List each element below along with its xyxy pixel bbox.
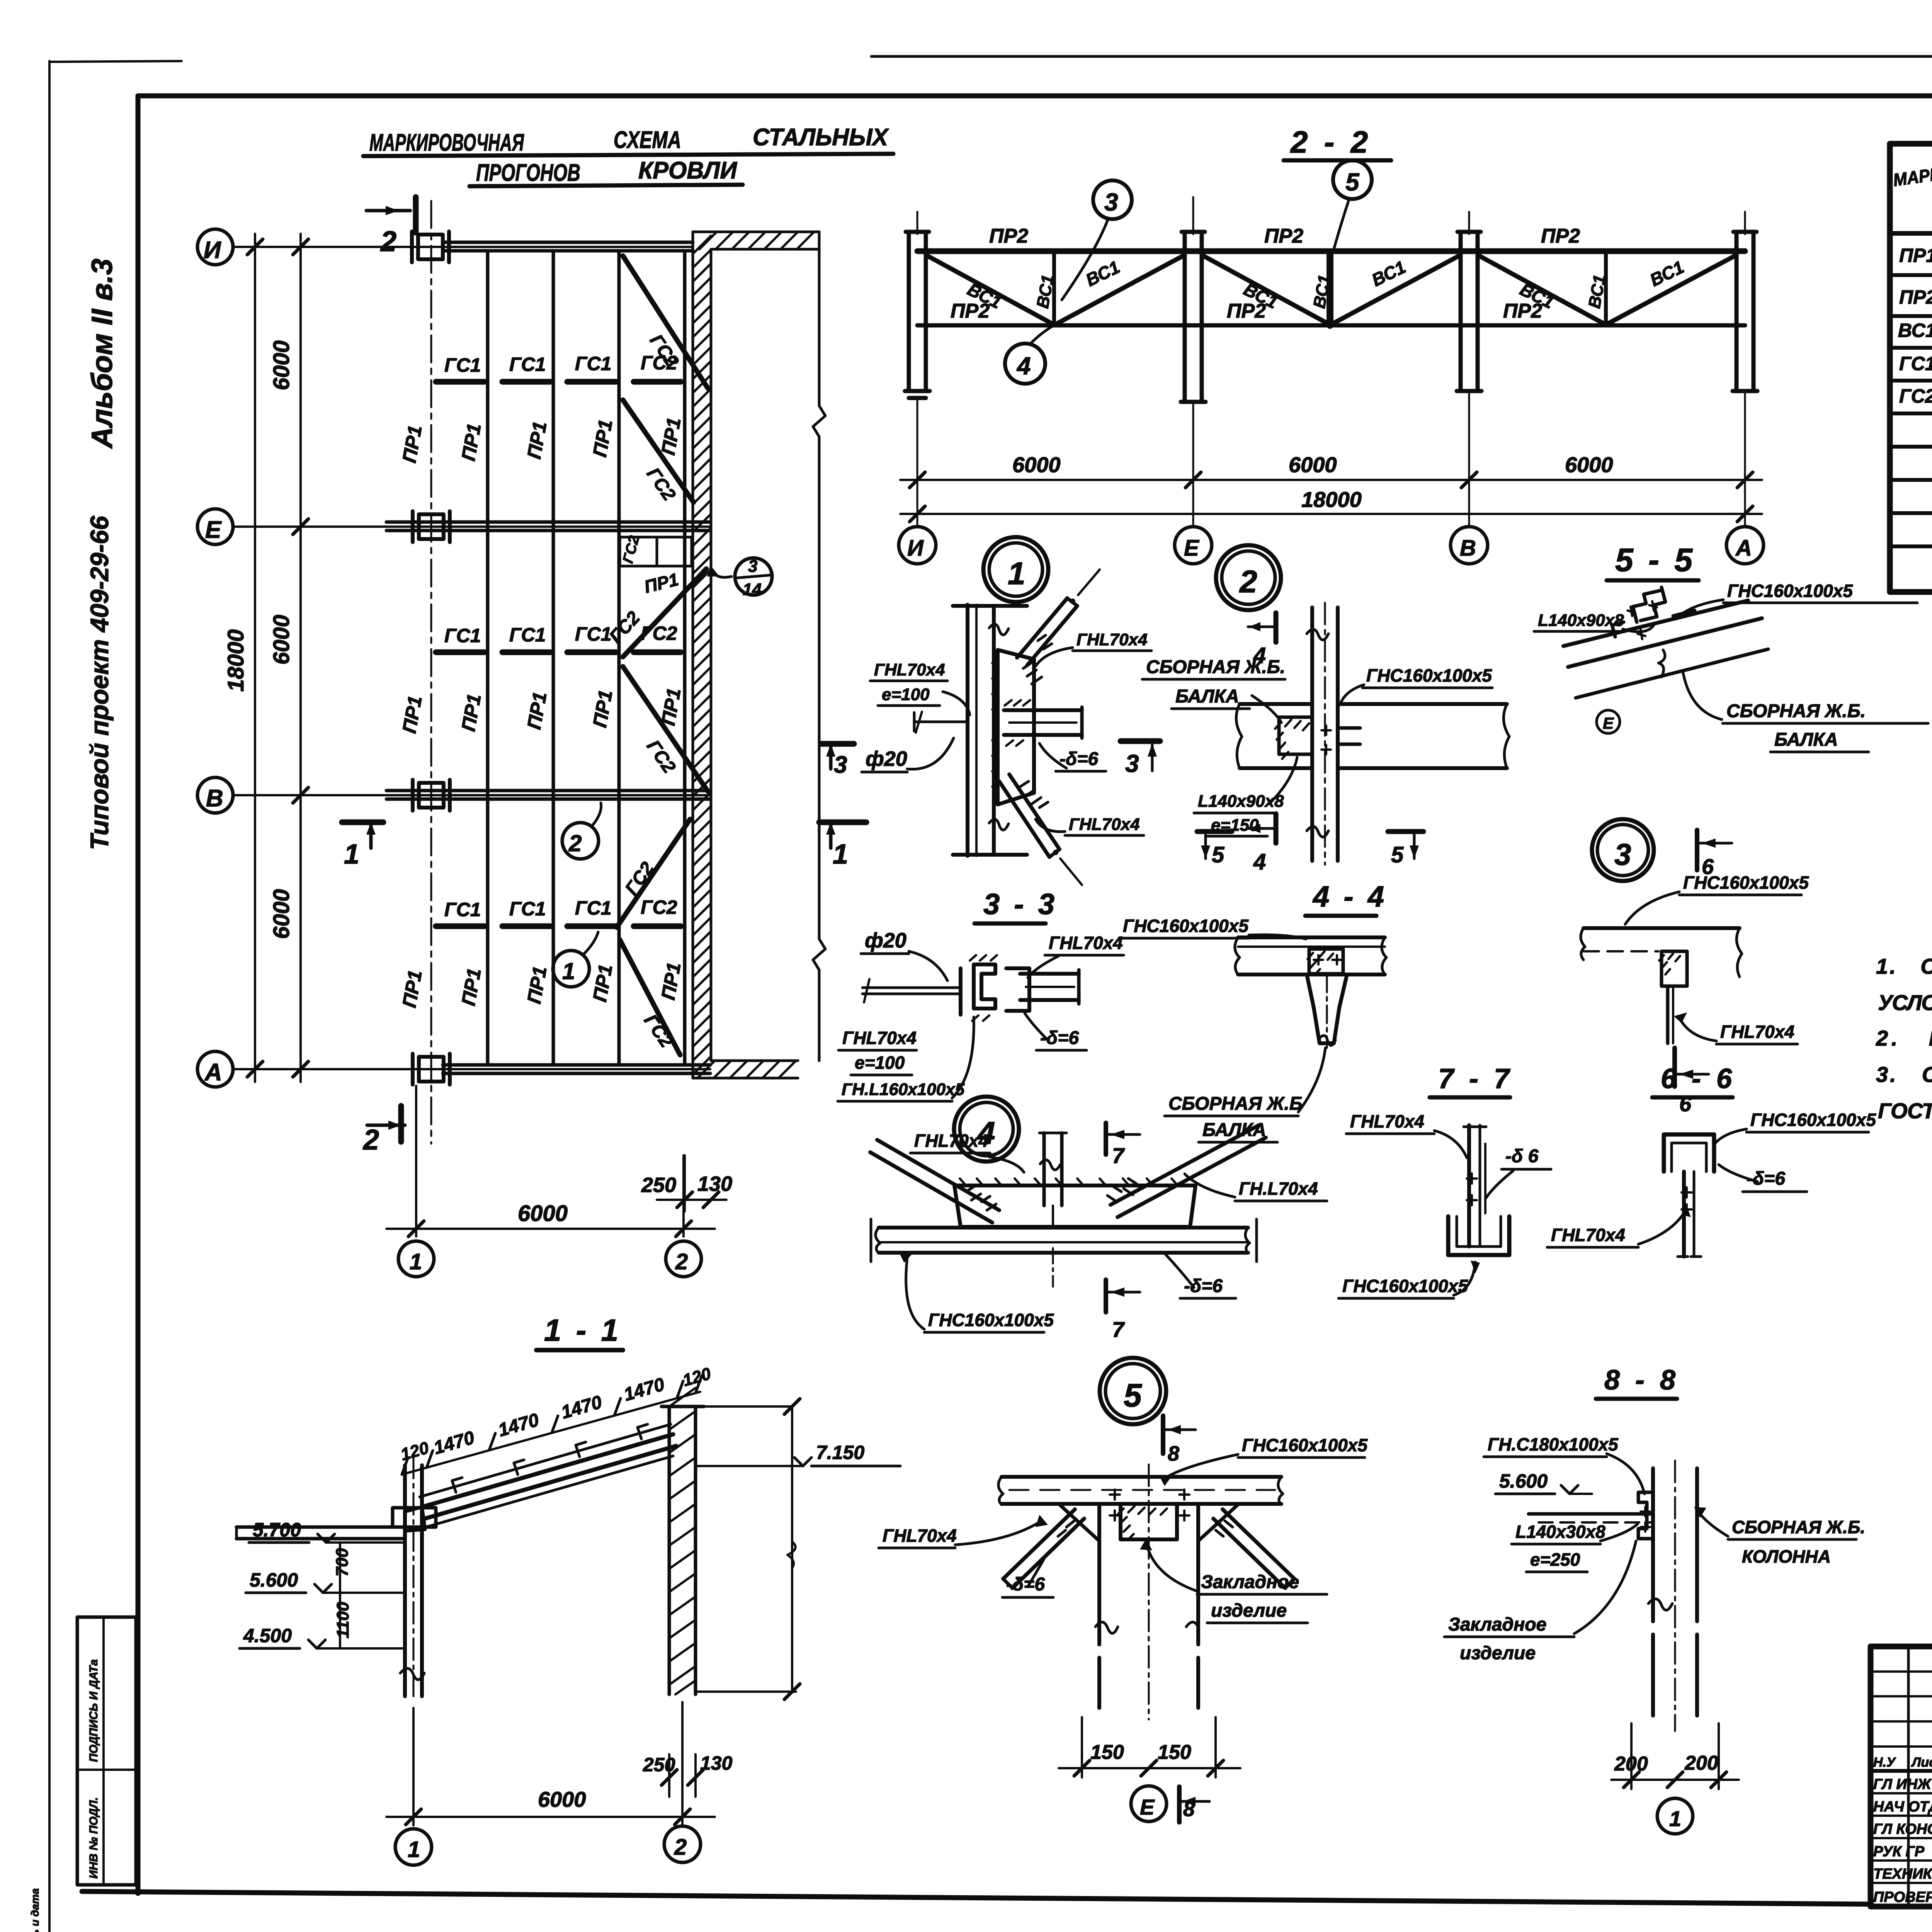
detail circle 2 on plan [562, 823, 599, 859]
svg-text:130: 130 [697, 1172, 732, 1196]
svg-text:6000: 6000 [1565, 452, 1613, 477]
svg-text:СХЕМА: СХЕМА [614, 127, 681, 153]
section mark 3 right of det1 [1121, 738, 1160, 744]
svg-text:2: 2 [675, 1249, 688, 1274]
column A [413, 1054, 450, 1085]
svg-text:А: А [204, 1059, 222, 1086]
svg-text:L140х30х8: L140х30х8 [1515, 1522, 1605, 1542]
svg-text:ГНL70х4: ГНL70х4 [1077, 630, 1148, 649]
ELEMENTS TABLE [1890, 109, 1932, 592]
column cap bracket [393, 1508, 436, 1527]
svg-text:ГНL70х4: ГНL70х4 [1049, 933, 1123, 953]
svg-text:ПР2: ПР2 [1899, 286, 1932, 308]
TITLE BLOCK [1871, 1578, 1932, 1932]
column B [413, 780, 450, 811]
svg-text:700: 700 [333, 1548, 352, 1577]
svg-text:200: 200 [1614, 1753, 1648, 1775]
dim 150 150 [1081, 1717, 1083, 1777]
column head [1307, 975, 1347, 1043]
wall top extension [693, 231, 819, 233]
labels [1146, 657, 1492, 835]
vertical angle [1467, 1125, 1471, 1247]
svg-text:СБОРНАЯ Ж.Б.: СБОРНАЯ Ж.Б. [1732, 1517, 1865, 1537]
svg-text:7: 7 [1112, 1143, 1125, 1168]
svg-text:6000: 6000 [518, 1201, 568, 1226]
sub-bay detail near E [620, 537, 692, 566]
wall hatched strip [693, 232, 711, 1078]
svg-text:14: 14 [743, 580, 762, 599]
angle below [1666, 986, 1670, 1043]
svg-text:3: 3 [834, 752, 847, 778]
wall bottom extension [693, 1077, 798, 1080]
rod [862, 986, 961, 989]
column I [412, 231, 449, 262]
detail circle 1 on plan [553, 951, 589, 987]
svg-text:6000: 6000 [269, 340, 294, 390]
svg-text:2: 2 [568, 830, 582, 856]
svg-text:ГС1: ГС1 [575, 897, 612, 919]
svg-text:3: 3 [748, 557, 757, 576]
svg-text:1100: 1100 [333, 1602, 352, 1638]
beam at row I [443, 241, 693, 244]
detail circle 4 [1005, 344, 1045, 384]
sloped roof lines [1563, 600, 1748, 646]
svg-text:ГОСТ 9467-75. ВЫСОТА СВАРНЫХ: ГОСТ 9467-75. ВЫСОТА СВАРНЫХ ШВОВ hш-4 м… [1878, 1099, 1932, 1123]
svg-text:-δ 6: -δ 6 [1505, 1146, 1539, 1167]
diagonals VS1 bay1 [927, 256, 1051, 323]
svg-text:ГС1: ГС1 [444, 625, 481, 646]
svg-text:150: 150 [1090, 1741, 1124, 1764]
vertical dims 700 1100 [339, 1543, 341, 1648]
lower diagonal brace [1009, 774, 1060, 849]
svg-text:ГС1: ГС1 [444, 354, 481, 376]
right wall hatched [668, 1406, 671, 1694]
svg-text:Закладное: Закладное [1201, 1572, 1299, 1592]
grid bubble B [197, 777, 233, 813]
DETAIL 3 [1581, 819, 1809, 1116]
gusset [954, 1185, 1196, 1227]
connector clip [961, 964, 1029, 1015]
grid bubble 1 below [1657, 1798, 1693, 1834]
svg-text:ГНL70х4: ГНL70х4 [1720, 1022, 1794, 1042]
header texts [1873, 1755, 1932, 1905]
svg-text:В: В [1460, 536, 1476, 561]
DETAIL 5-5 [1534, 542, 1928, 752]
DETAIL 5 [879, 1358, 1368, 1822]
svg-text:1: 1 [1008, 556, 1026, 591]
top chord PR2 [917, 248, 1745, 254]
corbels [1059, 1504, 1099, 1541]
callout 3/14 [735, 558, 772, 595]
right diagonal [1111, 1125, 1259, 1205]
labels [1551, 1110, 1876, 1245]
svg-text:6000: 6000 [269, 889, 294, 939]
svg-text:ГНL70х4: ГНL70х4 [914, 1131, 988, 1151]
svg-text:7 - 7: 7 - 7 [1438, 1063, 1513, 1094]
column E [413, 511, 450, 542]
margin text: Albom II v.3 [86, 259, 119, 449]
svg-text:СБОРНАЯ Ж.Б.: СБОРНАЯ Ж.Б. [1146, 657, 1285, 677]
beam at row E [386, 520, 710, 524]
svg-text:Е: Е [1184, 536, 1200, 561]
svg-text:6 - 6: 6 - 6 [1661, 1063, 1736, 1094]
svg-text:ГН.L70х4: ГН.L70х4 [1239, 1179, 1318, 1199]
svg-text:И: И [907, 536, 924, 561]
svg-text:изделие: изделие [1211, 1600, 1287, 1621]
svg-text:Альбом II в.3: Альбом II в.3 [86, 259, 119, 449]
left diagonal [877, 1140, 999, 1210]
detail circle 3 [1093, 180, 1132, 219]
svg-text:ГЛ ИНЖ ПР: ГЛ ИНЖ ПР [1873, 1776, 1932, 1793]
top channel opening down [1664, 1134, 1714, 1172]
column at axis I [905, 232, 930, 398]
section mark 2 bottom [367, 1124, 405, 1127]
svg-text:Е: Е [205, 517, 222, 543]
svg-text:7.150: 7.150 [816, 1442, 864, 1463]
svg-text:2: 2 [1239, 564, 1257, 599]
left columns [1907, 1646, 1910, 1906]
grid line A [233, 1068, 710, 1070]
SECTION 7-7 [1338, 1063, 1551, 1298]
svg-text:ГНL70х4: ГНL70х4 [874, 660, 945, 679]
dimension line 18000 vertical [254, 234, 256, 1082]
SECTION 1-1 [236, 1313, 900, 1865]
section mark 6 bottom [1672, 1048, 1677, 1087]
left column [403, 1465, 407, 1696]
ties bay2 GS [436, 650, 681, 655]
svg-text:Н.У: Н.У [1873, 1755, 1896, 1770]
ties bay3 GS [436, 923, 681, 929]
labels [842, 929, 1123, 1099]
column [1651, 1468, 1655, 1621]
grid bubble E below [1131, 1786, 1167, 1821]
beam at row A [443, 1063, 710, 1067]
grid bubble 2 below plan [666, 1241, 701, 1277]
svg-text:ГНL70х4: ГНL70х4 [1069, 815, 1140, 834]
labels [866, 630, 1148, 834]
section marks 4 [1274, 613, 1279, 642]
svg-text:3: 3 [1125, 750, 1139, 777]
plate and bolts [1309, 949, 1343, 974]
svg-text:8: 8 [1168, 1442, 1179, 1465]
right vertical dim [791, 1406, 793, 1692]
beam at row B [386, 789, 710, 793]
outer thin border top-left segment [49, 61, 182, 62]
svg-text:ПР2: ПР2 [1264, 225, 1303, 247]
svg-text:ПОДПИСЬ И ДАТа: ПОДПИСЬ И ДАТа [87, 1659, 100, 1762]
svg-text:1: 1 [1669, 1806, 1681, 1831]
margin text tiny bottom-left outside [29, 1888, 41, 1932]
section mark 1 right [819, 820, 866, 825]
svg-text:1: 1 [833, 839, 848, 870]
dim 200 200 [1630, 1723, 1633, 1789]
svg-text:ИНВ № ПОДЛ.: ИНВ № ПОДЛ. [87, 1797, 100, 1879]
svg-text:ГС1: ГС1 [1899, 353, 1932, 374]
dim 250 130 below wall [684, 1155, 686, 1211]
svg-text:ГС1: ГС1 [509, 354, 546, 375]
svg-text:ГС2: ГС2 [641, 896, 677, 918]
svg-text:8: 8 [1183, 1798, 1195, 1821]
table outer [1890, 144, 1932, 592]
svg-text:ПР2: ПР2 [1541, 225, 1580, 247]
beam [1238, 935, 1385, 939]
svg-text:е=100: е=100 [882, 685, 930, 704]
clip assembly [1612, 587, 1695, 637]
MAIN TITLE [363, 124, 893, 186]
svg-text:5 - 5: 5 - 5 [1615, 542, 1696, 578]
svg-text:-δ=6: -δ=6 [1184, 1276, 1223, 1296]
svg-text:ГН.L160х100х5: ГН.L160х100х5 [842, 1080, 965, 1099]
svg-text:ГНС160х100х5: ГНС160х100х5 [1683, 872, 1809, 893]
grid line B [233, 794, 710, 796]
right channel [1020, 972, 1079, 976]
svg-text:ф20: ф20 [865, 929, 906, 952]
svg-text:ПР1: ПР1 [1899, 245, 1932, 266]
SECTION 2-2 [899, 125, 1764, 564]
left rows [1871, 1670, 1932, 1673]
section marks 7 [1104, 1123, 1108, 1155]
gusset plate [998, 650, 1034, 804]
svg-text:ВС1: ВС1 [1898, 320, 1932, 341]
margin text: stamp column vertical labels [87, 1659, 100, 1762]
svg-text:-δ=6: -δ=6 [1006, 1574, 1045, 1595]
svg-text:ГНL70х4: ГНL70х4 [1551, 1225, 1625, 1245]
svg-text:4: 4 [1016, 352, 1031, 380]
svg-text:УСЛОВНЫЕ ОБОЗНАЧЕНИЯ СМ. Л: УСЛОВНЫЕ ОБОЗНАЧЕНИЯ СМ. ЛИСТ КН-1. [1878, 990, 1932, 1015]
svg-text:2 - 2: 2 - 2 [1290, 125, 1372, 159]
svg-text:ПРОГОНОВ: ПРОГОНОВ [476, 160, 580, 186]
data rows [1898, 245, 1932, 407]
diagonal GS2 braces bay2 [623, 569, 706, 657]
labels [1342, 1111, 1539, 1296]
svg-text:Е: Е [1140, 1795, 1155, 1819]
svg-text:БАЛКА: БАЛКА [1774, 730, 1838, 750]
svg-text:18000: 18000 [223, 629, 248, 692]
purlin vertical channel [966, 605, 969, 856]
svg-text:И: И [204, 237, 221, 264]
column axis lines above [917, 197, 1745, 234]
svg-text:МАРКИРОВОЧНАЯ: МАРКИРОВОЧНАЯ [369, 129, 524, 156]
svg-text:1 - 1: 1 - 1 [544, 1313, 621, 1347]
svg-text:3: 3 [1104, 188, 1118, 216]
dimension line 6000s vertical [299, 234, 302, 1082]
section mark 6 top [1695, 830, 1699, 870]
svg-text:5.700: 5.700 [253, 1519, 301, 1541]
grid bubble 1 [395, 1829, 432, 1865]
svg-text:Инв № подл. Подпись и дата: Инв № подл. Подпись и дата [29, 1888, 41, 1932]
svg-text:ГНС160х100х5: ГНС160х100х5 [1366, 665, 1492, 685]
dim ticks [247, 239, 308, 1077]
purlin PR1 lines [486, 253, 490, 1064]
DETAIL 2 [1142, 545, 1509, 874]
bottom dims [412, 1708, 415, 1825]
svg-text:ПР2: ПР2 [989, 225, 1028, 247]
svg-text:ГНС160х100х5: ГНС160х100х5 [1750, 1110, 1876, 1130]
svg-text:ГНС160х100х5: ГНС160х100х5 [1342, 1276, 1468, 1296]
svg-text:ГНС160х100х5: ГНС160х100х5 [1727, 581, 1853, 601]
column [1097, 1504, 1101, 1645]
svg-text:СБОРНАЯ Ж.Б: СБОРНАЯ Ж.Б [1168, 1094, 1303, 1114]
grid bubbles 2-2 [899, 527, 936, 564]
svg-text:130: 130 [700, 1752, 733, 1774]
svg-text:250: 250 [641, 1173, 676, 1197]
svg-text:4: 4 [1253, 849, 1266, 874]
svg-text:ГНС160х100х5: ГНС160х100х5 [1123, 916, 1249, 936]
angle below [1682, 1172, 1686, 1257]
svg-text:ГС2: ГС2 [1899, 385, 1932, 407]
PLAN VIEW [197, 201, 825, 1144]
grid bubble A [197, 1051, 233, 1087]
svg-text:2: 2 [674, 1835, 687, 1860]
bottom dim 6000 with bubbles [415, 1086, 417, 1236]
svg-text:ГС1: ГС1 [509, 624, 546, 646]
svg-text:2. ВСЕ БОЛТЫ М12.: 2. ВСЕ БОЛТЫ М12. [1876, 1026, 1932, 1050]
svg-text:ГНС160х100х5: ГНС160х100х5 [928, 1310, 1054, 1330]
axis center [1052, 1248, 1054, 1287]
DETAIL 1 [862, 537, 1160, 885]
margin text: Tipovoy proekt 409-29-66 [85, 515, 114, 850]
SECTION 6-6 [1547, 1063, 1876, 1257]
section marks 5 [1197, 829, 1232, 834]
outer thin border top [871, 55, 1932, 58]
dim line 6000s [900, 479, 1762, 481]
right boundary with breaks [813, 232, 825, 1061]
svg-text:ПРОВЕРИЛ: ПРОВЕРИЛ [1873, 1889, 1932, 1905]
svg-text:изделие: изделие [1460, 1643, 1536, 1663]
beam [879, 1226, 1248, 1230]
svg-text:ГНL70х4: ГНL70х4 [883, 1526, 957, 1546]
svg-text:200: 200 [1684, 1752, 1718, 1774]
column verticals [1310, 607, 1314, 861]
top connection [1529, 1512, 1653, 1516]
header texts [1892, 155, 1932, 233]
elevation marks left [243, 1519, 301, 1646]
svg-text:2: 2 [362, 1124, 379, 1156]
svg-text:5: 5 [1212, 842, 1225, 867]
NOTES [1876, 954, 1932, 1123]
canopy slab left [236, 1526, 405, 1529]
bottom chord PR2 [917, 323, 1745, 328]
svg-text:1: 1 [410, 1249, 422, 1274]
svg-text:ГЛ КОНСТ: ГЛ КОНСТ [1873, 1821, 1932, 1837]
section mark 2 top [366, 209, 410, 213]
braces [1003, 1509, 1075, 1579]
wall hatch [693, 236, 711, 1075]
svg-text:18000: 18000 [1301, 487, 1362, 512]
grid line E [233, 526, 710, 528]
svg-text:СТАЛЬНЫХ: СТАЛЬНЫХ [753, 124, 889, 151]
column at axis A [1733, 232, 1757, 391]
labels [883, 1435, 1368, 1621]
svg-text:НАЧ ОТД: НАЧ ОТД [1873, 1799, 1932, 1815]
ties bay1 GS [436, 379, 681, 385]
tie channel right [1004, 708, 1082, 712]
svg-text:1: 1 [344, 839, 359, 870]
svg-text:ГНL70х4: ГНL70х4 [1350, 1111, 1424, 1131]
grid bubble 1 below plan [398, 1241, 434, 1277]
svg-text:СБОРНАЯ Ж.Б.: СБОРНАЯ Ж.Б. [1726, 701, 1866, 721]
bottom channel opening up [1448, 1216, 1509, 1255]
upper diagonal brace [1017, 598, 1067, 658]
svg-text:6000: 6000 [269, 615, 294, 665]
diagonals VS1 bay2 [1203, 256, 1327, 323]
purlin stubs on roof [452, 1424, 648, 1492]
SECTION 4-4 [1119, 880, 1387, 1142]
grid bubble E [197, 509, 233, 544]
svg-text:Е: Е [1603, 714, 1614, 732]
embedded plate [1279, 717, 1312, 754]
svg-text:2: 2 [380, 225, 396, 257]
diagonal GS2 braces bay1 [623, 256, 708, 388]
beam lines [1240, 702, 1312, 706]
svg-text:Лист: Лист [1911, 1755, 1932, 1770]
svg-text:Типовой проект 409-29-66: Типовой проект 409-29-66 [85, 515, 114, 850]
svg-text:РУК ГР: РУК ГР [1873, 1844, 1925, 1860]
section mark 8 top [1161, 1416, 1165, 1454]
column at axis E [1181, 232, 1206, 402]
svg-text:ГС2: ГС2 [641, 622, 677, 644]
svg-text:1: 1 [408, 1837, 420, 1862]
svg-text:КРОВЛИ: КРОВЛИ [638, 157, 737, 184]
labels [1448, 1434, 1865, 1663]
weld ticks on gusset edge [992, 657, 998, 787]
svg-text:5.600: 5.600 [1499, 1470, 1548, 1492]
svg-text:4 - 4: 4 - 4 [1312, 880, 1387, 913]
svg-text:В: В [206, 785, 223, 812]
diagonals VS1 bay3 [1479, 256, 1603, 323]
svg-text:КОЛОННА: КОЛОННА [1742, 1546, 1831, 1566]
svg-text:е=100: е=100 [855, 1053, 905, 1073]
svg-text:5.600: 5.600 [250, 1569, 298, 1591]
svg-text:8 - 8: 8 - 8 [1604, 1365, 1679, 1396]
section mark 1 left [342, 820, 383, 825]
vertical stud [1043, 1133, 1046, 1206]
svg-text:ТЕХНИК: ТЕХНИК [1873, 1866, 1932, 1882]
roof beam sloped [422, 1434, 673, 1507]
detail circle 5 [1333, 160, 1372, 199]
SECTION 8-8 [1444, 1365, 1865, 1834]
dim line 18000 [900, 513, 1762, 515]
svg-text:6000: 6000 [538, 1787, 586, 1811]
svg-text:ГН.С180х100х5: ГН.С180х100х5 [1488, 1434, 1619, 1454]
beam [1002, 1475, 1281, 1479]
diagonal GS2 braces bay3 [617, 819, 690, 927]
svg-text:е=150: е=150 [1211, 816, 1259, 835]
tie rod [914, 721, 968, 723]
svg-text:Закладное: Закладное [1448, 1614, 1546, 1635]
labels [914, 1131, 1318, 1330]
svg-text:6: 6 [1679, 1092, 1692, 1116]
svg-text:е=250: е=250 [1530, 1549, 1580, 1570]
grid line I [233, 246, 693, 248]
outer thin border left [48, 61, 51, 1932]
svg-text:ГНС160х100х5: ГНС160х100х5 [1242, 1435, 1368, 1455]
svg-text:А: А [1735, 536, 1752, 561]
svg-text:5: 5 [1124, 1377, 1142, 1413]
mid verticals VS1 [1052, 252, 1056, 325]
svg-text:ф20: ф20 [866, 747, 907, 770]
extension lines to dims [917, 392, 1745, 526]
SECTION 3-3 [838, 888, 1124, 1101]
svg-text:5: 5 [1391, 842, 1404, 867]
svg-text:3 - 3: 3 - 3 [983, 888, 1058, 921]
beam [1583, 926, 1740, 930]
svg-text:1: 1 [562, 958, 575, 984]
column at axis B [1457, 232, 1481, 391]
svg-text:ГС1: ГС1 [575, 353, 612, 374]
connector box [1662, 951, 1687, 986]
section mark 3 right [821, 741, 854, 747]
